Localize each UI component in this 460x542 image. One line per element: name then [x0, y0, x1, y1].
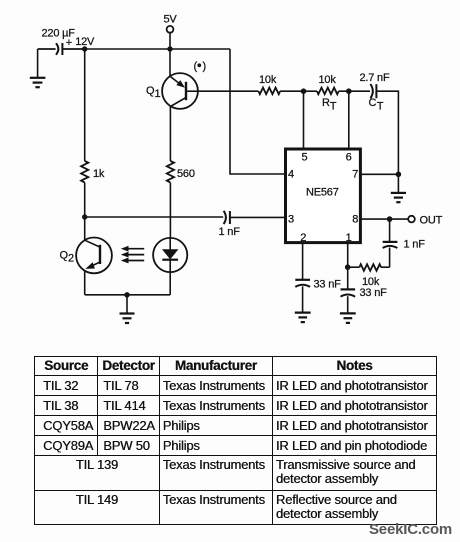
wire pin 8 to out — [360, 218, 408, 220]
resistor RT 10k — [317, 88, 339, 95]
label Q1 — [146, 85, 161, 100]
node pin1 — [345, 264, 351, 270]
node pin8 — [387, 216, 393, 222]
label 33 nF pin1 — [360, 287, 388, 299]
wire pin 2 — [302, 243, 304, 280]
wire rail corner to pin 4 — [230, 49, 286, 174]
svg-text:2.7 nF: 2.7 nF — [360, 72, 390, 84]
svg-text:33 nF: 33 nF — [360, 287, 388, 299]
svg-text:3: 3 — [288, 213, 294, 225]
node ground junction — [124, 292, 129, 297]
terminal OUT — [408, 214, 442, 226]
svg-text:C: C — [369, 97, 377, 109]
light arrows — [121, 246, 144, 264]
label 10k output — [362, 276, 380, 288]
wire Q2 node to 1nF cap — [85, 216, 224, 218]
node pin7 — [396, 172, 402, 178]
capacitor 1nF output — [383, 219, 398, 267]
label CT — [369, 97, 384, 113]
label 1k — [93, 168, 105, 180]
svg-text:T: T — [377, 100, 384, 112]
resistor R1 1k — [81, 49, 88, 217]
label 1 nF pin3 — [219, 226, 241, 238]
wire RT to node6 — [339, 90, 370, 92]
wire Q1 base row — [198, 90, 259, 92]
node 5V junction — [167, 46, 172, 51]
wire 12V rail — [85, 48, 230, 50]
svg-text:2: 2 — [300, 232, 306, 244]
svg-text:560: 560 — [177, 168, 195, 180]
resistor 10k output — [348, 264, 390, 271]
node Q2 collector — [82, 214, 87, 219]
svg-text:10k: 10k — [362, 276, 380, 288]
label 560 — [177, 168, 195, 180]
capacitor C1 220uF — [38, 43, 85, 55]
wire pin 5 — [303, 91, 305, 149]
node pin5 — [301, 88, 307, 94]
svg-text:): ) — [203, 61, 206, 73]
watermark — [369, 521, 452, 538]
svg-text:7: 7 — [352, 169, 358, 181]
resistor R2 10k — [259, 88, 281, 95]
svg-text:10k: 10k — [259, 74, 277, 86]
capacitor CT 2.7nF — [370, 84, 376, 98]
wire pin 7 — [360, 173, 398, 175]
svg-text:2: 2 — [68, 253, 74, 265]
svg-text:T: T — [330, 100, 337, 112]
svg-text:1 nF: 1 nF — [404, 239, 426, 251]
label (dot) note — [194, 61, 206, 73]
wire pin 6 — [348, 91, 350, 149]
wire 1nF to pin 3 — [230, 216, 286, 218]
svg-text:12V: 12V — [75, 36, 95, 48]
svg-text:NE567: NE567 — [306, 186, 339, 198]
label Q2 — [60, 250, 75, 265]
ground pin1 — [340, 313, 356, 323]
svg-text:4: 4 — [288, 169, 294, 181]
node pin6 — [346, 88, 352, 94]
svg-text:8: 8 — [352, 213, 358, 225]
label 12V — [75, 36, 95, 48]
label plus — [66, 37, 72, 49]
svg-text:+: + — [66, 37, 72, 49]
svg-text:6: 6 — [346, 152, 352, 164]
capacitor 1nF pin3 — [224, 211, 230, 224]
transistor Q1 (PNP) — [162, 49, 198, 161]
ground pin2 — [295, 313, 311, 323]
svg-text:10k: 10k — [319, 74, 337, 86]
label 220uF — [42, 28, 76, 40]
wire pin 1 — [347, 243, 349, 290]
terminal 5V — [164, 14, 178, 49]
LED D1 — [153, 238, 187, 295]
label 33 nF pin2 — [314, 279, 342, 291]
label 2.7 nF — [360, 72, 390, 84]
label 1 nF output — [404, 239, 426, 251]
capacitor 33nF pin1 — [341, 289, 356, 313]
wire 10k to node5 — [280, 90, 317, 92]
svg-text:(: ( — [194, 61, 198, 73]
ground pin7 — [391, 174, 406, 202]
svg-text:5V: 5V — [164, 14, 178, 26]
svg-text:1k: 1k — [93, 168, 105, 180]
svg-text:1: 1 — [346, 232, 352, 244]
svg-text:33 nF: 33 nF — [314, 279, 342, 291]
IC U1 NE567 — [286, 149, 361, 244]
label RT — [322, 97, 337, 113]
svg-text:1: 1 — [155, 88, 161, 100]
label 10k RT — [319, 74, 337, 86]
transistor Q2 (NPN photo) — [76, 217, 112, 295]
svg-text:5: 5 — [302, 152, 308, 164]
node 12V junction — [82, 46, 87, 51]
capacitor 33nF pin2 — [295, 280, 310, 313]
ground main — [120, 295, 135, 323]
svg-text:R: R — [322, 97, 330, 109]
parts table — [34, 356, 437, 525]
svg-text:1 nF: 1 nF — [219, 226, 241, 238]
wire emitter bottom row — [85, 294, 171, 296]
svg-text:OUT: OUT — [420, 214, 443, 226]
label 10k input — [259, 74, 277, 86]
wire CT to corner down to pin7 node — [376, 91, 398, 174]
ground input filter — [30, 49, 46, 87]
resistor 560 — [167, 161, 174, 238]
